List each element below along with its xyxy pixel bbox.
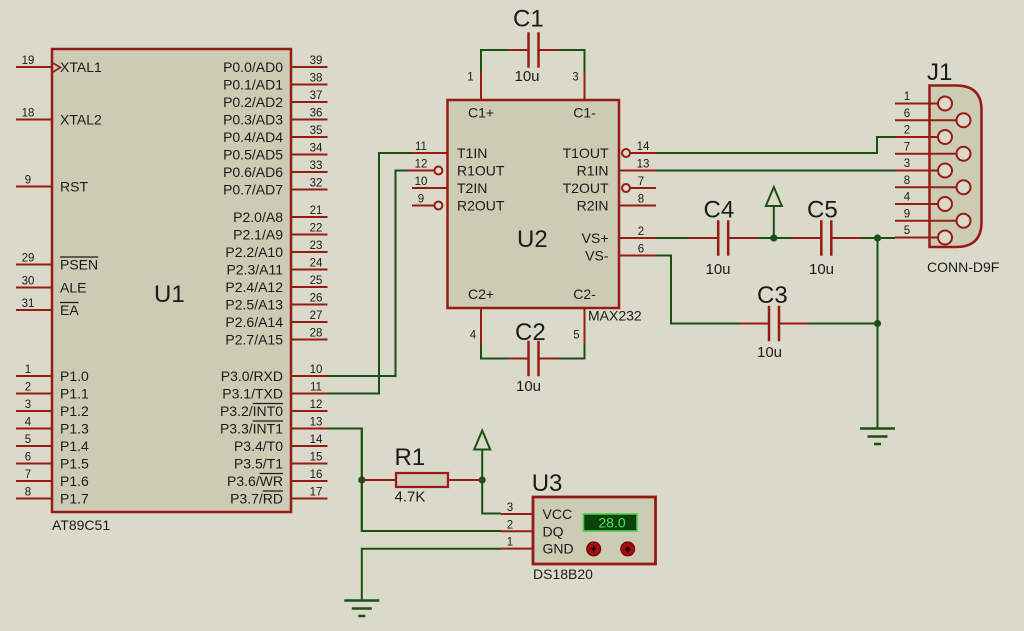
svg-text:7: 7 xyxy=(25,469,31,481)
svg-text:P1.1: P1.1 xyxy=(60,386,89,402)
svg-text:11: 11 xyxy=(415,141,427,153)
svg-text:28.0: 28.0 xyxy=(598,515,625,531)
svg-text:10u: 10u xyxy=(516,378,541,395)
svg-text:C5: C5 xyxy=(807,197,838,224)
svg-text:P2.2/A10: P2.2/A10 xyxy=(225,244,283,260)
svg-text:XTAL2: XTAL2 xyxy=(60,112,102,128)
svg-text:5: 5 xyxy=(573,330,579,342)
svg-text:P3.3/INT1: P3.3/INT1 xyxy=(220,421,283,437)
svg-text:C1-: C1- xyxy=(573,105,596,121)
svg-text:P0.7/AD7: P0.7/AD7 xyxy=(223,182,283,198)
svg-text:3: 3 xyxy=(904,158,910,170)
svg-text:C1+: C1+ xyxy=(468,105,494,121)
svg-text:P3.1/TXD: P3.1/TXD xyxy=(222,386,283,402)
svg-text:P0.5/AD5: P0.5/AD5 xyxy=(223,147,283,163)
svg-text:31: 31 xyxy=(22,298,35,310)
svg-text:38: 38 xyxy=(310,73,323,85)
svg-text:5: 5 xyxy=(25,434,31,446)
svg-text:4: 4 xyxy=(904,192,911,204)
svg-text:2: 2 xyxy=(25,382,31,394)
svg-text:2: 2 xyxy=(904,125,910,137)
svg-text:P0.0/AD0: P0.0/AD0 xyxy=(223,59,283,75)
svg-text:P3.5/T1: P3.5/T1 xyxy=(234,456,283,472)
svg-text:C1: C1 xyxy=(513,6,544,33)
svg-text:1: 1 xyxy=(507,537,513,549)
svg-text:6: 6 xyxy=(25,452,31,464)
svg-text:DQ: DQ xyxy=(543,523,564,539)
svg-text:P1.2: P1.2 xyxy=(60,403,89,419)
svg-text:J1: J1 xyxy=(927,59,952,86)
svg-text:P0.6/AD6: P0.6/AD6 xyxy=(223,164,283,180)
svg-text:1: 1 xyxy=(904,91,910,103)
svg-text:14: 14 xyxy=(637,141,650,153)
svg-text:P0.2/AD2: P0.2/AD2 xyxy=(223,94,283,110)
svg-text:R2IN: R2IN xyxy=(577,198,609,214)
svg-text:R1IN: R1IN xyxy=(577,163,609,179)
svg-text:34: 34 xyxy=(310,143,323,155)
svg-text:U3: U3 xyxy=(532,470,563,497)
svg-text:P3.2/INT0: P3.2/INT0 xyxy=(220,403,283,419)
svg-text:P2.7/A15: P2.7/A15 xyxy=(225,332,283,348)
svg-text:9: 9 xyxy=(418,194,424,206)
svg-text:5: 5 xyxy=(904,225,910,237)
svg-text:10u: 10u xyxy=(706,261,731,278)
svg-text:25: 25 xyxy=(310,275,323,287)
svg-text:10: 10 xyxy=(310,364,323,376)
svg-text:R2OUT: R2OUT xyxy=(457,198,505,214)
svg-text:ALE: ALE xyxy=(60,280,86,296)
svg-text:35: 35 xyxy=(310,125,323,137)
svg-text:GND: GND xyxy=(543,541,574,557)
svg-text:PSEN: PSEN xyxy=(60,257,98,273)
svg-text:33: 33 xyxy=(310,160,323,172)
svg-text:26: 26 xyxy=(310,293,323,305)
svg-text:C4: C4 xyxy=(704,197,735,224)
svg-text:AT89C51: AT89C51 xyxy=(52,517,110,533)
svg-text:P2.4/A12: P2.4/A12 xyxy=(225,279,283,295)
svg-text:P0.4/AD4: P0.4/AD4 xyxy=(223,129,283,145)
svg-text:13: 13 xyxy=(637,159,650,171)
svg-text:P0.3/AD3: P0.3/AD3 xyxy=(223,112,283,128)
svg-text:21: 21 xyxy=(310,205,323,217)
svg-text:4: 4 xyxy=(25,417,32,429)
svg-text:10u: 10u xyxy=(757,344,782,361)
svg-text:R1: R1 xyxy=(395,444,426,471)
svg-text:36: 36 xyxy=(310,108,323,120)
svg-text:8: 8 xyxy=(638,194,644,206)
svg-text:P3.7/RD: P3.7/RD xyxy=(230,491,283,507)
svg-text:4.7K: 4.7K xyxy=(395,489,426,506)
svg-text:28: 28 xyxy=(310,328,323,340)
svg-text:3: 3 xyxy=(572,72,578,84)
svg-text:1: 1 xyxy=(467,72,473,84)
svg-text:6: 6 xyxy=(638,244,644,256)
svg-text:8: 8 xyxy=(25,487,31,499)
svg-text:DS18B20: DS18B20 xyxy=(533,566,593,582)
svg-text:U2: U2 xyxy=(517,226,548,253)
svg-text:23: 23 xyxy=(310,240,323,252)
svg-text:P2.5/A13: P2.5/A13 xyxy=(225,297,283,313)
svg-text:37: 37 xyxy=(310,90,323,102)
svg-text:22: 22 xyxy=(310,223,323,235)
svg-text:27: 27 xyxy=(310,310,323,322)
svg-text:P1.6: P1.6 xyxy=(60,473,89,489)
svg-text:14: 14 xyxy=(310,434,323,446)
svg-text:16: 16 xyxy=(310,469,323,481)
svg-text:R1OUT: R1OUT xyxy=(457,163,505,179)
svg-text:10u: 10u xyxy=(809,261,834,278)
svg-text:EA: EA xyxy=(60,302,79,318)
svg-text:P3.4/T0: P3.4/T0 xyxy=(234,438,283,454)
svg-text:2: 2 xyxy=(638,226,644,238)
svg-text:15: 15 xyxy=(310,452,323,464)
svg-text:P1.4: P1.4 xyxy=(60,438,89,454)
svg-text:3: 3 xyxy=(25,399,31,411)
svg-text:24: 24 xyxy=(310,258,323,270)
svg-text:30: 30 xyxy=(22,276,35,288)
svg-text:P1.3: P1.3 xyxy=(60,421,89,437)
svg-text:RST: RST xyxy=(60,179,88,195)
svg-text:9: 9 xyxy=(25,175,31,187)
svg-text:CONN-D9F: CONN-D9F xyxy=(927,259,999,275)
svg-text:9: 9 xyxy=(904,208,910,220)
svg-text:P2.1/A9: P2.1/A9 xyxy=(233,227,283,243)
svg-text:P1.5: P1.5 xyxy=(60,456,89,472)
svg-text:39: 39 xyxy=(310,55,323,67)
svg-text:10u: 10u xyxy=(515,68,540,85)
svg-text:P3.6/WR: P3.6/WR xyxy=(227,473,283,489)
svg-text:P2.3/A11: P2.3/A11 xyxy=(226,262,283,278)
svg-text:T1IN: T1IN xyxy=(457,145,487,161)
svg-text:1: 1 xyxy=(25,364,31,376)
svg-text:3: 3 xyxy=(507,502,513,514)
svg-text:XTAL1: XTAL1 xyxy=(60,59,102,75)
svg-text:12: 12 xyxy=(415,159,428,171)
svg-text:32: 32 xyxy=(310,178,323,190)
svg-text:8: 8 xyxy=(904,175,910,187)
svg-text:T2IN: T2IN xyxy=(457,180,487,196)
svg-text:C2+: C2+ xyxy=(468,286,494,302)
svg-text:6: 6 xyxy=(904,108,910,120)
svg-text:19: 19 xyxy=(22,55,35,67)
svg-text:18: 18 xyxy=(22,108,35,120)
svg-text:13: 13 xyxy=(310,417,323,429)
svg-text:P2.6/A14: P2.6/A14 xyxy=(225,314,283,330)
svg-text:P0.1/AD1: P0.1/AD1 xyxy=(223,77,283,93)
svg-text:U1: U1 xyxy=(154,281,185,308)
svg-text:T2OUT: T2OUT xyxy=(563,180,609,196)
svg-text:29: 29 xyxy=(22,253,35,265)
svg-text:C2-: C2- xyxy=(573,286,596,302)
svg-text:7: 7 xyxy=(904,141,910,153)
svg-text:C3: C3 xyxy=(757,282,788,309)
svg-text:C2: C2 xyxy=(515,319,546,346)
svg-text:P1.7: P1.7 xyxy=(60,491,89,507)
svg-text:10: 10 xyxy=(415,176,428,188)
svg-text:T1OUT: T1OUT xyxy=(563,145,609,161)
svg-text:P3.0/RXD: P3.0/RXD xyxy=(221,368,283,384)
svg-text:VCC: VCC xyxy=(543,506,573,522)
svg-text:VS-: VS- xyxy=(585,248,609,264)
svg-text:VS+: VS+ xyxy=(582,230,609,246)
svg-text:11: 11 xyxy=(310,382,322,394)
svg-text:4: 4 xyxy=(470,330,477,342)
svg-text:2: 2 xyxy=(507,519,513,531)
svg-text:17: 17 xyxy=(310,487,323,499)
svg-text:MAX232: MAX232 xyxy=(588,308,642,324)
svg-text:7: 7 xyxy=(638,176,644,188)
svg-text:12: 12 xyxy=(310,399,323,411)
svg-text:P2.0/A8: P2.0/A8 xyxy=(233,209,283,225)
svg-text:P1.0: P1.0 xyxy=(60,368,89,384)
